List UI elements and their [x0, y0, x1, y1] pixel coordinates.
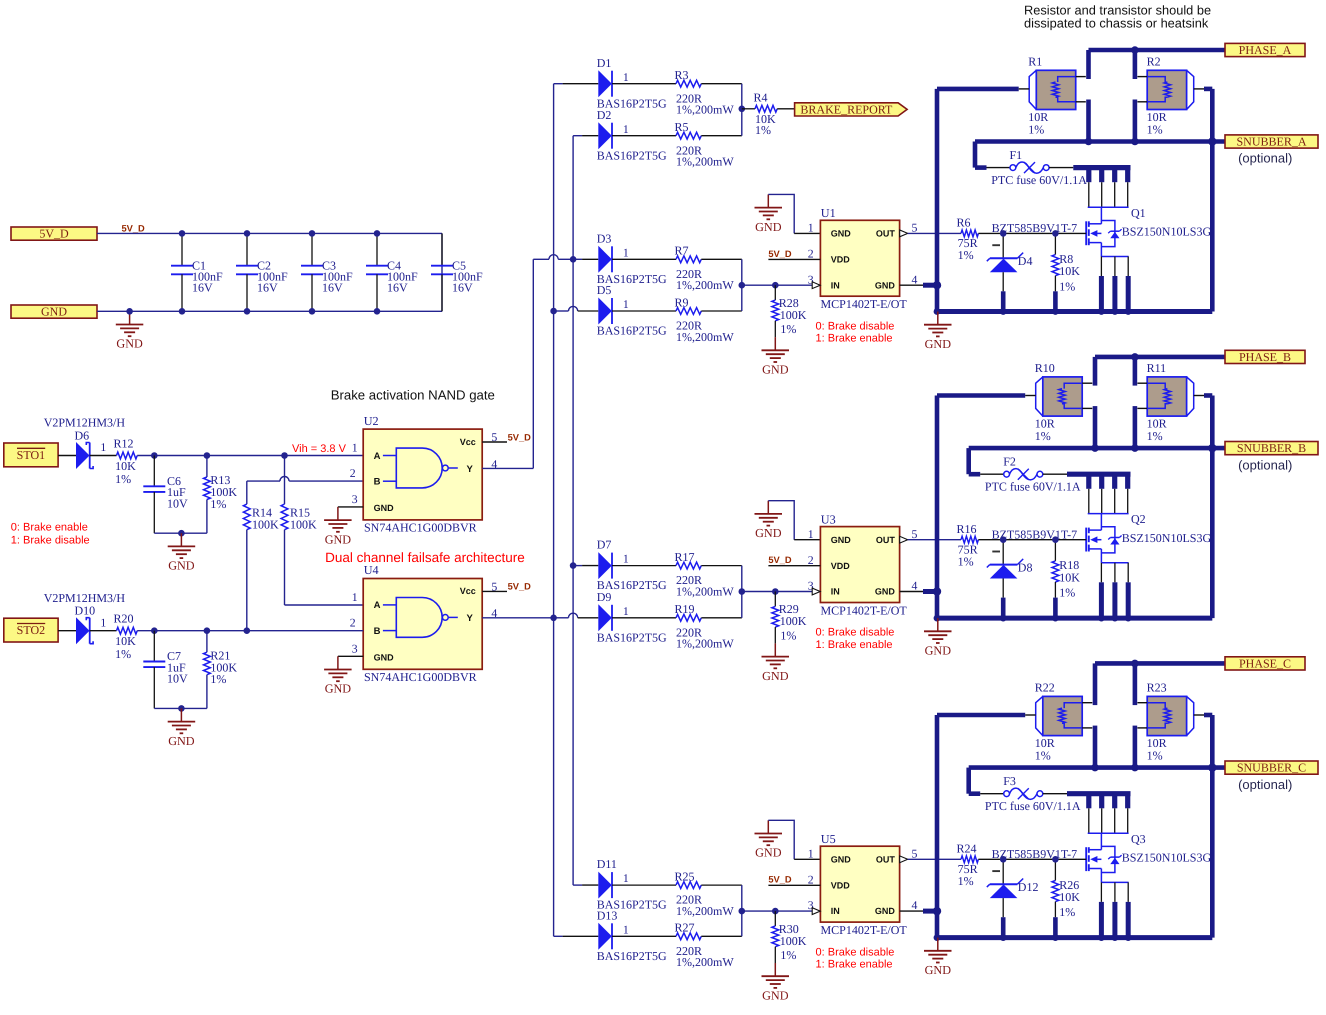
ground GND (R30): [762, 963, 790, 1002]
svg-text:U5: U5: [821, 832, 836, 846]
svg-text:1: 1: [623, 122, 629, 136]
svg-text:10K: 10K: [1059, 264, 1080, 278]
node IN junction U3: [739, 588, 779, 595]
diode D12 BZT585B9V1T-7 (zener): [987, 859, 1039, 937]
node STO2-R21: [204, 627, 211, 634]
svg-text:1%: 1%: [780, 948, 796, 962]
node GND rail junction C1: [179, 308, 186, 315]
wire bus to R left pin: [937, 393, 1025, 398]
svg-text:GND: GND: [875, 280, 896, 290]
wire R1 bottom pin stub: [1093, 406, 1098, 448]
node snubber-R1: [1091, 444, 1099, 452]
resistor R14 100K: [243, 504, 279, 631]
ground GND (power rail): [924, 618, 952, 657]
svg-text:1%,200mW: 1%,200mW: [676, 585, 734, 599]
svg-text:10K: 10K: [1059, 570, 1080, 584]
svg-text:GND: GND: [116, 337, 143, 351]
svg-text:GND: GND: [925, 963, 952, 977]
node rail-gnd: [934, 615, 1059, 622]
wire GND rail: [97, 310, 442, 312]
wire bus U2 output: [553, 84, 555, 937]
wire U1 pin5 OUT: [900, 230, 961, 237]
resistor R2 10R 1%: [1137, 55, 1204, 137]
svg-text:2: 2: [808, 872, 814, 886]
svg-text:SNUBBER_C: SNUBBER_C: [1237, 761, 1306, 775]
svg-text:1: 1: [100, 440, 106, 454]
node snubber-R2: [1131, 764, 1139, 772]
svg-text:D9: D9: [597, 590, 612, 604]
node rail-gnd: [934, 308, 1059, 315]
svg-text:SNUBBER_B: SNUBBER_B: [1237, 441, 1306, 455]
capacitor C4 100nF 16V: [366, 233, 418, 311]
wire SNUBBER rail SNUBBER_B: [969, 446, 1225, 451]
svg-text:100K: 100K: [252, 518, 279, 532]
svg-text:B: B: [374, 477, 381, 488]
resistor R6 75R 1%: [957, 216, 1087, 262]
wire feed D2: [573, 135, 598, 137]
svg-text:D4: D4: [1018, 254, 1033, 268]
wire Q drain pads: [1073, 168, 1130, 208]
svg-text:Q2: Q2: [1131, 512, 1146, 526]
wire snubber elbow: [969, 448, 981, 474]
svg-text:D10: D10: [75, 604, 96, 618]
resistor R8 10K 1%: [1052, 233, 1080, 311]
svg-text:GND: GND: [374, 652, 395, 662]
node STO1-R13: [204, 452, 211, 459]
annotation optional: [1238, 457, 1292, 472]
svg-text:GND: GND: [325, 682, 352, 696]
wire U2.B: [247, 476, 363, 504]
svg-text:R7: R7: [675, 244, 689, 258]
wire R1 top pin stub: [1093, 663, 1098, 705]
wire PHASE rail PHASE_A: [1089, 48, 1226, 53]
resistor R11 10R 1%: [1137, 361, 1204, 443]
wire feed D3: [573, 258, 598, 260]
annotation: heatsink note: [1024, 2, 1211, 30]
svg-text:D13: D13: [597, 908, 618, 922]
svg-text:1%,200mW: 1%,200mW: [676, 103, 734, 117]
wire U3 pin3 IN: [742, 588, 820, 595]
wire PHASE rail PHASE_B: [1095, 355, 1225, 360]
svg-text:4: 4: [912, 579, 918, 593]
ground GND (C7/R21): [168, 708, 196, 747]
node snubber-R2: [1131, 444, 1139, 452]
svg-text:SN74AHC1G00DBVR: SN74AHC1G00DBVR: [364, 670, 477, 684]
svg-text:5V_D: 5V_D: [122, 224, 146, 234]
ground GND (power rail): [116, 311, 144, 350]
svg-text:GND: GND: [41, 305, 67, 319]
resistor R1 10R 1%: [1019, 55, 1086, 137]
ground GND (power rail): [924, 938, 952, 977]
resistor R4 10K 1%: [742, 90, 795, 136]
resistor R25 220R: [675, 869, 742, 918]
wire R1 top pin stub: [1086, 50, 1091, 79]
svg-text:16V: 16V: [192, 281, 213, 295]
resistor R12 10K 1%: [114, 437, 138, 486]
wire gnd rail: [937, 616, 1212, 621]
port STO1: [4, 443, 58, 467]
diode D4 BZT585B9V1T-7 (zener): [987, 233, 1033, 311]
svg-text:OUT: OUT: [876, 535, 896, 545]
node snubber-bleed: [1208, 763, 1216, 771]
svg-text:1: 1: [352, 590, 358, 604]
ground GND (U1 pin1): [755, 194, 783, 233]
svg-text:Q1: Q1: [1131, 206, 1146, 220]
wire R2 right elbow: [1204, 715, 1212, 938]
node VDD 5V_D U3: [768, 555, 820, 566]
wire U3 pin4 GND: [900, 587, 942, 595]
node rail-gnd: [934, 934, 1059, 941]
node GND rail tap: [126, 308, 133, 315]
svg-text:1%,200mW: 1%,200mW: [676, 278, 734, 292]
svg-text:3: 3: [352, 492, 358, 506]
wire gnd rail: [937, 309, 1212, 314]
wire R2 bottom pin stub: [1133, 406, 1138, 448]
node IN junction U5: [739, 908, 779, 915]
svg-text:1%,200mW: 1%,200mW: [676, 637, 734, 651]
svg-text:GND: GND: [875, 587, 896, 597]
svg-text:Vih = 3.8 V: Vih = 3.8 V: [292, 443, 347, 455]
svg-text:GND: GND: [755, 846, 782, 860]
wire R2 right elbow: [1204, 396, 1212, 619]
svg-text:MCP1402T-E/OT: MCP1402T-E/OT: [821, 923, 908, 937]
svg-text:BSZ150N10LS3G: BSZ150N10LS3G: [1122, 225, 1212, 239]
diode D3 BAS16P2T5G: [597, 231, 676, 286]
svg-text:D5: D5: [597, 283, 612, 297]
svg-text:GND: GND: [755, 526, 782, 540]
svg-text:1%: 1%: [1147, 429, 1163, 443]
wire STO1 node: [137, 455, 363, 457]
svg-text:D6: D6: [75, 428, 90, 442]
svg-text:BAS16P2T5G: BAS16P2T5G: [597, 630, 667, 644]
svg-text:R27: R27: [675, 921, 695, 935]
svg-text:1: 1: [808, 527, 814, 541]
wire R1 top pin stub: [1093, 357, 1098, 386]
wire bus U4 output: [572, 136, 574, 885]
svg-text:BSZ150N10LS3G: BSZ150N10LS3G: [1122, 851, 1212, 865]
svg-text:1%: 1%: [115, 647, 131, 661]
capacitor C3 100nF 16V: [301, 233, 353, 311]
wire R2 right elbow: [1204, 89, 1212, 312]
svg-text:GND: GND: [168, 559, 195, 573]
svg-text:GND: GND: [168, 734, 195, 748]
annotation optional: [1238, 151, 1292, 166]
svg-text:2: 2: [350, 616, 356, 630]
node bus2-D7: [570, 562, 577, 569]
resistor R24 75R 1%: [957, 842, 1087, 888]
wire U5 pin5 OUT: [900, 856, 961, 863]
svg-text:R20: R20: [114, 612, 134, 626]
svg-text:16V: 16V: [322, 281, 343, 295]
svg-text:1%: 1%: [1147, 123, 1163, 137]
svg-text:GND: GND: [831, 854, 852, 864]
node PHASE rail PHASE_A: [1131, 46, 1139, 54]
fuse F3 PTC: [980, 774, 1081, 813]
transistor Q1 BSZ150N10LS3G: [1086, 206, 1211, 257]
svg-text:1: 1: [100, 615, 106, 629]
wire join D3/D5: [741, 259, 743, 311]
wire gnd rail: [937, 935, 1212, 940]
annotation BZT585B9V1T-7: [992, 527, 1078, 541]
annotation BZT585B9V1T-7: [992, 221, 1078, 235]
svg-text:GND: GND: [325, 532, 352, 546]
svg-text:Y: Y: [467, 613, 474, 624]
svg-text:PHASE_B: PHASE_B: [1239, 350, 1291, 364]
wire join D1/D2: [741, 84, 743, 136]
svg-text:100K: 100K: [780, 614, 807, 628]
svg-text:dissipated to chassis or heats: dissipated to chassis or heatsink: [1024, 16, 1209, 31]
node bus2-D3: [570, 256, 577, 263]
svg-text:PHASE_A: PHASE_A: [1239, 43, 1292, 57]
svg-text:1%,200mW: 1%,200mW: [676, 155, 734, 169]
resistor R10 10R 1%: [1025, 361, 1092, 443]
diode D6 V2PM12HM3/H: [44, 416, 126, 469]
svg-text:R5: R5: [675, 120, 689, 134]
svg-text:1%,200mW: 1%,200mW: [676, 904, 734, 918]
svg-text:MCP1402T-E/OT: MCP1402T-E/OT: [821, 297, 908, 311]
wire U3 pin1: [768, 501, 820, 540]
svg-text:1%: 1%: [958, 554, 974, 568]
svg-text:1: 1: [623, 297, 629, 311]
resistor R26 10K 1%: [1052, 859, 1080, 937]
svg-text:R11: R11: [1147, 361, 1167, 375]
svg-text:D12: D12: [1018, 880, 1039, 894]
node C7/R21 gnd: [178, 705, 185, 712]
svg-text:1%: 1%: [1035, 749, 1051, 763]
svg-text:5V_D: 5V_D: [39, 227, 69, 241]
node STO2-R14: [244, 627, 251, 634]
wire R2 top pin stub: [1133, 663, 1138, 705]
svg-text:U4: U4: [364, 563, 379, 577]
resistor R21 100K 1%: [204, 631, 238, 709]
svg-text:IN: IN: [831, 906, 840, 916]
diode D10 V2PM12HM3/H: [44, 591, 126, 644]
svg-text:Y: Y: [467, 464, 474, 475]
node snubber-bleed: [1208, 137, 1216, 145]
svg-text:16V: 16V: [452, 281, 473, 295]
ground GND (power rail): [924, 312, 952, 351]
svg-text:2: 2: [808, 247, 814, 261]
wire Q drain pads: [1067, 794, 1131, 834]
node gate-R18: [1052, 536, 1059, 543]
node 5V rail junction C2: [244, 230, 251, 237]
svg-text:5V_D: 5V_D: [508, 432, 532, 442]
svg-text:STO1: STO1: [17, 448, 45, 462]
svg-text:1%: 1%: [780, 322, 796, 336]
svg-text:D7: D7: [597, 538, 612, 552]
svg-text:5: 5: [912, 221, 918, 235]
svg-text:1: 1: [623, 922, 629, 936]
svg-text:1: 1: [623, 245, 629, 259]
svg-text:A: A: [374, 451, 381, 462]
svg-text:10K: 10K: [115, 634, 136, 648]
ground GND (U4): [324, 656, 352, 695]
ground GND (U5 pin1): [755, 820, 783, 859]
svg-text:IN: IN: [831, 280, 840, 290]
wire Q source to gnd rail: [1098, 882, 1132, 941]
svg-text:1: 1: [808, 846, 814, 860]
annotation brake enable STO1: [11, 522, 90, 547]
annotation brake U5: [816, 946, 895, 970]
wire STO2 node: [137, 630, 363, 632]
svg-text:1%: 1%: [115, 472, 131, 486]
svg-text:10K: 10K: [115, 459, 136, 473]
node gate-D8: [1000, 536, 1007, 543]
port SNUBBER_C: [1225, 761, 1318, 775]
svg-text:R4: R4: [754, 90, 768, 104]
wire PHASE rail PHASE_C: [1095, 661, 1225, 666]
svg-text:(optional): (optional): [1238, 457, 1292, 472]
svg-text:1%: 1%: [210, 497, 226, 511]
node IN junction U1: [739, 282, 779, 289]
wire U4.Y route: [482, 617, 553, 619]
svg-text:STO2: STO2: [17, 623, 45, 637]
port PHASE_B: [1225, 350, 1305, 364]
svg-text:R22: R22: [1035, 681, 1055, 695]
capacitor C5 100nF 16V: [431, 233, 483, 311]
svg-text:100K: 100K: [290, 518, 317, 532]
wire feed D1: [554, 83, 599, 85]
wire R1 bottom pin stub: [1093, 726, 1098, 768]
wire driver bus vertical: [935, 715, 940, 938]
wire STO1 to D6: [58, 455, 76, 457]
wire C7-R21 ground join: [154, 707, 207, 709]
node gate-D12: [1000, 856, 1007, 863]
svg-text:5V_D: 5V_D: [768, 555, 792, 565]
resistor R23 10R 1%: [1137, 681, 1204, 763]
svg-text:Dual channel failsafe architec: Dual channel failsafe architecture: [325, 550, 525, 565]
svg-text:VDD: VDD: [831, 561, 851, 571]
node PHASE rail PHASE_B: [1131, 353, 1139, 361]
svg-text:R1: R1: [1028, 55, 1042, 69]
wire R1 bottom pin stub: [1086, 100, 1091, 142]
svg-text:Vcc: Vcc: [460, 437, 476, 447]
wire U1 pin4 GND: [900, 281, 942, 289]
wire join D11/D13: [741, 885, 743, 936]
svg-text:0: Brake enable: 0: Brake enable: [11, 522, 88, 534]
node STO1-R15 (Vih): [281, 452, 288, 459]
diode D13 BAS16P2T5G: [597, 908, 676, 963]
svg-text:U3: U3: [821, 513, 836, 527]
wire R2 bottom pin stub: [1133, 726, 1138, 768]
node PHASE rail PHASE_C: [1131, 660, 1139, 668]
net label 5V_D: [122, 224, 146, 234]
resistor R22 10R 1%: [1025, 681, 1092, 763]
svg-text:1: 1: [352, 441, 358, 455]
svg-text:2: 2: [350, 466, 356, 480]
node GND rail junction C4: [374, 308, 381, 315]
transistor Q3 BSZ150N10LS3G: [1086, 832, 1211, 883]
wire feed D9: [554, 613, 599, 618]
wire U5 pin3 IN: [742, 908, 820, 915]
node snubber-R1: [1091, 764, 1099, 772]
svg-text:PTC fuse 60V/1.1A: PTC fuse 60V/1.1A: [985, 480, 1081, 494]
svg-text:1%: 1%: [1059, 586, 1075, 600]
capacitor C7 1uF 10V: [143, 631, 188, 709]
node GND rail junction C3: [309, 308, 316, 315]
svg-text:1: 1: [623, 70, 629, 84]
annotation Vih: [292, 443, 347, 455]
IC U5 MCP1402T-E/OT gate driver: [808, 832, 918, 937]
node GND rail junction C2: [244, 308, 251, 315]
svg-text:1: 1: [808, 221, 814, 235]
node snubber-bleed: [1208, 444, 1216, 452]
node bus1-D5: [550, 308, 557, 315]
wire SNUBBER rail SNUBBER_C: [969, 765, 1225, 770]
svg-text:5V_D: 5V_D: [508, 582, 532, 592]
svg-text:GND: GND: [831, 535, 852, 545]
wire U5 pin4 GND: [900, 907, 942, 915]
resistor R20 10K 1%: [114, 612, 138, 661]
svg-text:D1: D1: [597, 56, 612, 70]
resistor R3 220R: [675, 68, 742, 117]
svg-text:(optional): (optional): [1238, 151, 1292, 166]
annotation brake U3: [816, 627, 895, 651]
resistor R9 220R: [675, 295, 742, 344]
svg-text:1: Brake disable: 1: Brake disable: [11, 535, 90, 547]
wire snubber elbow: [975, 142, 987, 168]
svg-text:4: 4: [912, 272, 918, 286]
svg-text:1%: 1%: [958, 874, 974, 888]
svg-text:PTC fuse 60V/1.1A: PTC fuse 60V/1.1A: [991, 173, 1087, 187]
wire feed D13: [554, 935, 599, 937]
resistor R16 75R 1%: [957, 522, 1087, 568]
svg-text:4: 4: [912, 898, 918, 912]
svg-text:1: Brake enable: 1: Brake enable: [816, 333, 893, 345]
port SNUBBER_B: [1225, 441, 1318, 455]
node gate-R26: [1052, 856, 1059, 863]
node gate-R8: [1052, 230, 1059, 237]
svg-text:VDD: VDD: [831, 255, 851, 265]
wire C6-R13 ground join: [154, 532, 207, 534]
svg-text:0: Brake disable: 0: Brake disable: [816, 320, 895, 332]
ground GND (C6/R13): [168, 533, 196, 572]
svg-text:16V: 16V: [257, 281, 278, 295]
wire U1 pin3 IN: [742, 282, 820, 289]
svg-text:16V: 16V: [387, 281, 408, 295]
annotation optional: [1238, 777, 1292, 792]
svg-text:GND: GND: [762, 988, 789, 1002]
diode D5 BAS16P2T5G: [597, 283, 676, 338]
svg-text:R3: R3: [675, 68, 689, 82]
svg-text:PTC fuse 60V/1.1A: PTC fuse 60V/1.1A: [985, 799, 1081, 813]
wire STO2 to D10: [58, 630, 76, 632]
svg-text:0: Brake disable: 0: Brake disable: [816, 946, 895, 958]
port 5V_D: [11, 227, 97, 241]
svg-text:R2: R2: [1147, 55, 1161, 69]
capacitor C2 100nF 16V: [236, 233, 288, 311]
node gate-D4: [1000, 230, 1007, 237]
svg-text:5V_D: 5V_D: [768, 249, 792, 259]
capacitor C1 100nF 16V: [171, 233, 223, 311]
wire R2 top pin stub: [1133, 50, 1138, 79]
svg-text:1%: 1%: [1147, 749, 1163, 763]
svg-text:Brake activation NAND gate: Brake activation NAND gate: [331, 388, 495, 403]
svg-text:1%: 1%: [1028, 123, 1044, 137]
fuse F1 PTC: [987, 148, 1088, 187]
resistor R13 100K 1%: [204, 456, 238, 534]
svg-text:1%: 1%: [958, 248, 974, 262]
wire bus to R left pin: [937, 713, 1025, 718]
svg-text:A: A: [374, 600, 381, 611]
node STO1-C6: [151, 452, 158, 459]
node C6/R13 gnd: [178, 530, 185, 537]
svg-text:1: 1: [623, 604, 629, 618]
svg-text:D8: D8: [1018, 560, 1033, 574]
svg-text:(optional): (optional): [1238, 777, 1292, 792]
svg-text:BRAKE_REPORT: BRAKE_REPORT: [800, 103, 893, 117]
diode D7 BAS16P2T5G: [597, 538, 676, 593]
